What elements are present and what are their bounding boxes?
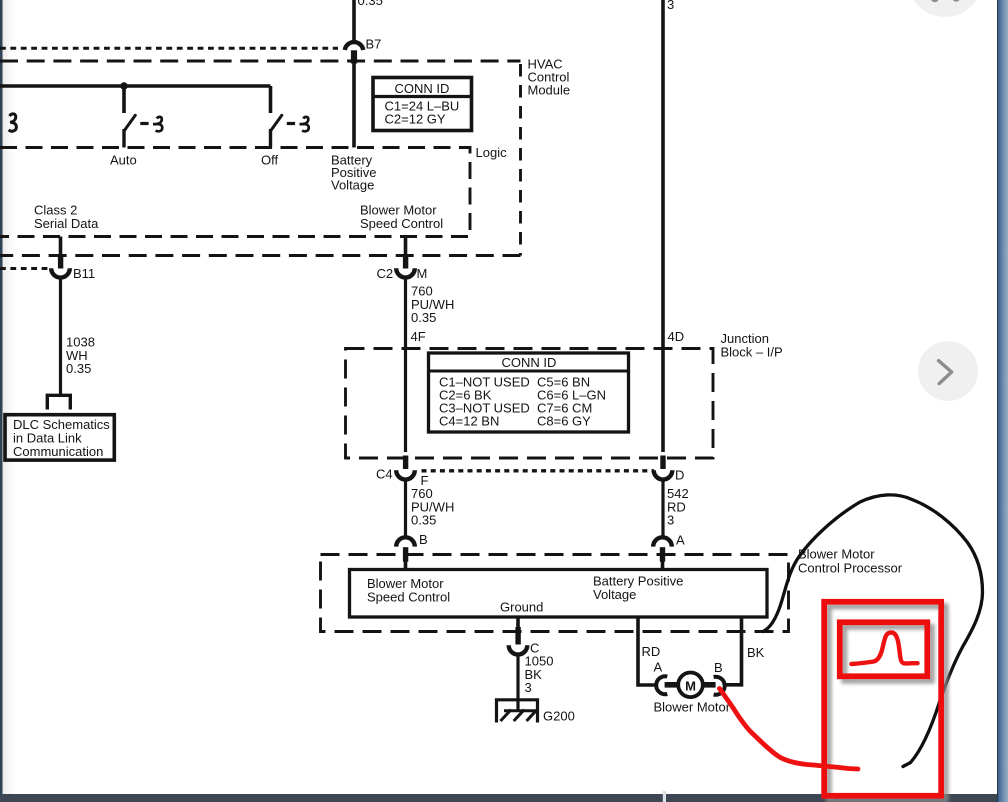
connector D [654,456,685,483]
svg-text:Control Processor: Control Processor [798,561,903,576]
connector B11 [51,256,95,281]
wire ground drop [516,617,520,630]
svg-text:B7: B7 [366,37,382,52]
label Blower Motor Control Processor [798,547,903,576]
svg-text:B: B [714,660,723,675]
connector C2 M [377,254,428,281]
svg-text:3: 3 [667,513,674,528]
switch Auto [110,115,162,167]
label 542 RD 3 [667,486,689,528]
svg-text:C4=12 BN: C4=12 BN [439,414,499,429]
annotation red scribble [720,689,859,770]
svg-text:0.35: 0.35 [66,361,91,376]
svg-text:B11: B11 [73,266,95,281]
wire 1050 [516,655,519,711]
svg-text:A: A [654,660,663,675]
svg-text:Off: Off [261,153,278,168]
svg-text:D: D [675,468,684,483]
wire 760 upper [404,278,407,452]
wire class2 drop [59,237,63,257]
svg-text:0.35: 0.35 [411,310,436,325]
wire BK [725,617,742,685]
annotation red rectangle outer [824,602,941,796]
Blower Motor Control Processor dashed box [321,555,789,632]
label Battery Positive Voltage inner [593,574,683,603]
Junction Block dashed box [346,349,714,459]
svg-text:3: 3 [525,680,532,695]
svg-text:Voltage: Voltage [331,178,374,193]
connector bracket to DLC [47,395,70,409]
label Class 2 Serial Data [34,203,99,232]
svg-text:Communication: Communication [13,444,103,459]
blower motor M [654,660,731,715]
switch Off [261,115,309,167]
dotted line C4 to D [422,469,655,472]
HVAC Control Module dashed box [0,61,521,256]
wire battery right vertical [661,0,665,452]
ANNOTATIONS [720,495,983,796]
svg-text:CONN ID: CONN ID [395,81,450,96]
svg-text:Ground: Ground [500,600,543,615]
svg-text:0.35: 0.35 [411,513,436,528]
label 760 PU/WH 0.35 lower [411,486,454,528]
svg-text:4F: 4F [411,329,426,344]
CONN ID table HVAC [373,78,472,131]
wire speed control drop [404,237,408,257]
wire 542 [661,480,664,538]
wire RD [638,617,655,685]
label HVAC Control Module [528,57,571,98]
svg-text:0.35: 0.35 [358,0,383,8]
label 1038 WH 0.35 [66,335,95,377]
svg-text:C8=6 GY: C8=6 GY [537,414,591,429]
svg-text:Voltage: Voltage [593,587,636,602]
wire 1038 [59,278,62,395]
switch partial left contact [9,114,17,131]
label 1050 BK 3 [525,654,554,696]
annotation black loop [763,495,983,767]
svg-text:Blower Motor: Blower Motor [798,547,875,562]
svg-text:Blower Motor: Blower Motor [654,700,731,715]
svg-text:M: M [417,266,428,281]
svg-text:4D: 4D [668,329,685,344]
svg-text:C2=12 GY: C2=12 GY [385,112,446,127]
wire switch bus [0,84,271,88]
svg-text:Block – I/P: Block – I/P [721,345,783,360]
svg-text:M: M [685,678,696,693]
label Battery Positive Voltage [331,153,377,193]
svg-text:B: B [419,532,428,547]
label 760 PU/WH 0.35 upper [411,284,454,326]
svg-text:Logic: Logic [476,145,508,160]
wire A to module [661,562,665,571]
svg-text:Module: Module [528,83,571,98]
connector A into processor [653,533,685,562]
label Blower Motor Speed Control [360,203,443,232]
label Blower Motor Speed Control inner [367,576,450,605]
Logic dashed box [0,148,470,237]
svg-text:C2: C2 [377,266,394,281]
wire 760 lower [404,480,407,538]
svg-text:C4: C4 [376,467,393,482]
svg-text:Speed Control: Speed Control [367,590,450,605]
svg-text:Speed Control: Speed Control [360,216,443,231]
connector C4 F [376,456,429,489]
connector C [509,627,540,656]
wire drop to Off switch [269,86,273,113]
svg-text:Serial Data: Serial Data [34,216,99,231]
wire battery feed top [352,0,356,41]
svg-text:A: A [676,533,685,548]
svg-text:Auto: Auto [110,153,137,168]
label Junction Block I/P [721,331,783,360]
annotation red rectangle inner [840,622,928,676]
wire B7 to logic box [352,64,356,148]
svg-text:3: 3 [667,0,674,12]
wire B to module [404,562,408,571]
connector B7 [345,37,382,64]
annotation red pulse [852,633,918,664]
ground G200 [497,700,575,724]
box DLC Schematics [5,415,114,460]
junction node dot [120,82,128,90]
svg-text:RD: RD [642,644,661,659]
CONN ID table Junction [429,353,629,432]
wire drop to Auto switch [122,86,126,113]
connector B into processor [396,532,427,562]
svg-text:CONN ID: CONN ID [502,355,557,370]
svg-text:BK: BK [747,645,765,660]
dotted bus line top [0,47,338,50]
dotted line at B11 [0,267,49,270]
module inner box [350,570,768,618]
svg-text:G200: G200 [543,709,575,724]
